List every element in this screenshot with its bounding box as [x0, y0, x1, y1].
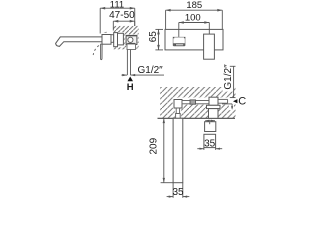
- through-wall block: [209, 109, 219, 119]
- 209 dimension: [163, 118, 165, 182]
- spout: [56, 37, 102, 47]
- right stub pipe: [218, 99, 228, 103]
- G1/2 bracket (bottom view): [230, 66, 236, 97]
- svg-text:G1/2″: G1/2″: [223, 64, 234, 90]
- svg-text:209: 209: [148, 137, 159, 154]
- triangle H: [128, 77, 134, 82]
- small width arrows: [205, 120, 215, 122]
- G1/2 pipe stub down: [126, 50, 128, 76]
- svg-text:C: C: [238, 95, 246, 107]
- tiny leader dash above body: [104, 32, 107, 33]
- dimension 47-50: [113, 21, 134, 30]
- wall hatch: [113, 26, 138, 51]
- valve lower fitting box: [127, 44, 136, 50]
- svg-text:H: H: [127, 82, 134, 93]
- pipe fitting: [190, 100, 196, 104]
- 35 dimension (pipe bottom): [167, 183, 190, 198]
- wall hatch: [160, 87, 237, 118]
- svg-text:35: 35: [204, 139, 216, 150]
- dimension 100: [179, 23, 210, 38]
- long pipe (spout from top): [173, 118, 183, 182]
- handle (front): [204, 34, 215, 59]
- C arrow: [233, 99, 237, 103]
- C section line: [222, 103, 232, 105]
- svg-text:111: 111: [110, 0, 124, 11]
- escutcheon: [114, 33, 118, 47]
- square with circle (valve end): [126, 35, 137, 44]
- left rect (spout mount): [174, 100, 182, 109]
- svg-text:100: 100: [185, 13, 201, 24]
- H dimension arrows: [121, 74, 127, 76]
- dimension 65: [155, 29, 163, 50]
- flange: [207, 105, 221, 108]
- valve (top): [209, 97, 218, 105]
- plate: [165, 29, 223, 50]
- stub below: [176, 108, 179, 114]
- channel pipe: [182, 101, 209, 104]
- body box: [102, 35, 111, 45]
- svg-text:47-50: 47-50: [109, 10, 135, 21]
- in-wall block: [118, 33, 124, 45]
- handle lever: [101, 44, 103, 59]
- valve body below wall: [205, 122, 216, 132]
- svg-text:G1/2″: G1/2″: [138, 65, 164, 76]
- wall bottom edge: [158, 117, 236, 119]
- dimension 185: [166, 10, 223, 29]
- connector: [111, 35, 114, 43]
- svg-text:35: 35: [172, 187, 184, 198]
- dimension 111: [100, 8, 135, 33]
- handle swing dashed arc: [93, 46, 99, 56]
- spout outlet box: [173, 37, 185, 45]
- 35 dim arrows (valve): [197, 148, 222, 150]
- lower box (handle from top): [204, 134, 216, 147]
- svg-text:185: 185: [186, 0, 202, 11]
- svg-text:65: 65: [148, 31, 159, 43]
